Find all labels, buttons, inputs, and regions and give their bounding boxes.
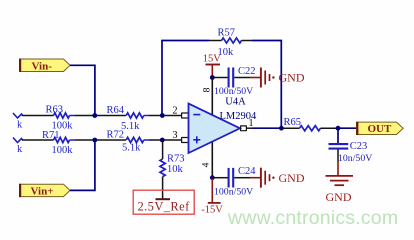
svg-text:k: k [17,120,23,131]
resistor R73 [160,154,185,177]
power port -15V [201,178,223,216]
resistor (partial, off-page) row1 tail [13,113,23,131]
svg-text:R57: R57 [218,28,236,39]
wire R73 to 2.5V_Ref [162,177,164,199]
port flag Vin+ [19,184,70,198]
svg-text:k: k [17,144,23,155]
node junction feedback / output [279,126,284,131]
ground GND (C24) [261,168,305,188]
wire pin8 vertical (through opamp) [211,78,213,178]
wire row2 right [149,139,163,141]
node junction 15V / pin8 / C22 [210,75,215,80]
svg-text:8: 8 [203,87,213,92]
power port 2.5V_Ref [138,199,191,213]
svg-text:2: 2 [173,106,178,117]
svg-text:10k: 10k [167,164,184,175]
wire row1 right [149,115,163,117]
wire node to OUT flag [338,127,357,129]
node junction R65 / C23 / OUT [336,126,341,131]
svg-text:R64: R64 [107,105,125,116]
resistor R65 [284,117,321,131]
highlight box around 2.5V_Ref [133,190,194,214]
svg-text:100k: 100k [52,145,74,156]
wire Vin- to row1 [70,65,95,115]
wire Vin+ to row2 [70,140,95,190]
resistor R57 [218,28,242,59]
wire node to C23 [337,128,339,143]
svg-text:R73: R73 [167,154,185,165]
capacitor C22 [214,66,256,97]
wire junction to C22 [212,77,228,79]
svg-text:100n/50V: 100n/50V [214,86,253,97]
wire feedback top left [161,40,221,42]
svg-text:5.1k: 5.1k [122,143,141,154]
ground GND (C22) [261,68,305,88]
svg-text:15V: 15V [203,53,222,64]
svg-text:U4A: U4A [225,97,246,108]
svg-text:GND: GND [279,71,305,85]
wire row2 mid [75,139,126,141]
resistor R71 [42,130,75,156]
op-amp pin 1 (output) [241,118,254,131]
svg-text:R72: R72 [107,130,125,141]
earth ground GND (output) [326,176,354,204]
wire feedback left vertical [161,41,163,116]
op-amp pin 2 [163,106,188,119]
node junction Vin- / R63 / R64 [92,113,97,118]
node junction R72 / pin3 / R73 [160,138,165,143]
node junction feedback / pin2 [160,113,165,118]
svg-text:GND: GND [279,171,305,185]
svg-text:R71: R71 [42,130,60,141]
wire row1 left [22,115,54,117]
svg-text:R63: R63 [46,105,64,116]
svg-text:OUT: OUT [368,123,393,135]
svg-text:www.cntronics.com: www.cntronics.com [227,207,398,229]
node junction Vin+ / R71 / R72 [92,138,97,143]
svg-text:100n/50V: 100n/50V [214,187,253,198]
svg-text:C22: C22 [238,66,256,77]
svg-text:GND: GND [326,190,352,204]
resistor R72 [107,130,150,154]
wire junction to C24 [212,177,228,179]
port flag Vin- [19,59,70,73]
svg-text:C24: C24 [238,166,256,177]
svg-text:10n/50V: 10n/50V [338,153,372,164]
resistor (partial, off-page) row2 tail [13,138,23,156]
wire C22 to GND [234,77,260,79]
watermark www.cntronics.com [227,207,398,229]
wire feedback top right [242,40,283,42]
resistor R64 [107,105,150,132]
port flag OUT [356,122,403,135]
svg-text:3: 3 [173,130,178,141]
wire C23 to earth ground [337,150,339,176]
svg-text:C23: C23 [350,141,368,152]
wire R65 to OUT node [321,127,339,129]
op-amp U4A LM2904 [189,97,258,154]
wire row1 mid [75,115,126,117]
wire node to R65 [281,127,299,129]
svg-text:-15V: -15V [201,204,223,215]
op-amp pin 3 [163,130,188,143]
node junction pin4 / C24 / -15V [210,175,215,180]
svg-text:2.5V_Ref: 2.5V_Ref [138,199,191,213]
svg-text:Vin+: Vin+ [31,185,54,197]
op-amp pin 4 number [202,162,212,167]
svg-text:R65: R65 [284,117,302,128]
wire C24 to GND [234,177,260,179]
op-amp pin 8 number [203,87,213,92]
resistor R63 [46,105,76,132]
wire opamp output to node [252,127,282,129]
wire row2 left [22,139,54,141]
svg-text:Vin-: Vin- [32,60,53,72]
wire feedback right vertical [280,41,282,129]
power port 15V [203,53,222,77]
capacitor C23 [329,141,373,164]
svg-text:4: 4 [202,162,212,167]
capacitor C24 [214,166,256,197]
wire R72 node to R73 [162,140,164,159]
